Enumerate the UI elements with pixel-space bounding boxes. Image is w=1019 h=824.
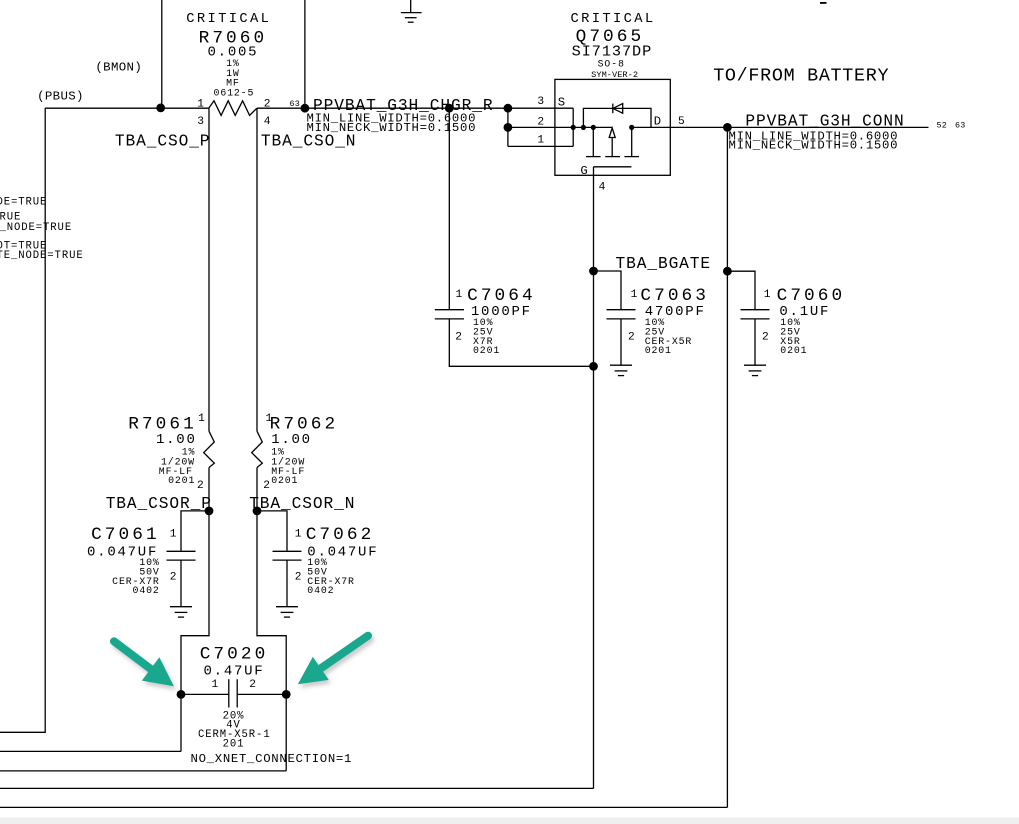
svg-text:DE=TRUE: DE=TRUE	[0, 197, 47, 209]
svg-text:52: 52	[937, 120, 947, 130]
svg-text:0402: 0402	[133, 585, 160, 596]
svg-text:2: 2	[249, 679, 256, 691]
wire bottom bus 2	[0, 770, 286, 772]
svg-text:4: 4	[599, 182, 606, 194]
node right stub	[629, 125, 634, 130]
node source bar	[571, 125, 576, 130]
wire BMON vertical	[161, 0, 163, 108]
node C7064 bottom junction	[589, 362, 598, 371]
svg-text:2: 2	[197, 480, 204, 492]
node diode left	[581, 125, 586, 130]
arrow left shadow	[116, 645, 176, 690]
svg-text:2: 2	[455, 332, 462, 344]
svg-text:_NODE=TRUE: _NODE=TRUE	[0, 222, 72, 234]
svg-text:TBA_CSOR_P: TBA_CSOR_P	[106, 495, 212, 513]
svg-text:CRITICAL: CRITICAL	[186, 12, 271, 27]
svg-text:TE_NODE=TRUE: TE_NODE=TRUE	[0, 250, 84, 262]
transistor Q7065 box	[555, 79, 670, 175]
svg-text:3: 3	[537, 96, 544, 108]
capacitor C7061 branch	[181, 511, 209, 551]
ground C7061	[170, 607, 192, 617]
svg-text:1: 1	[456, 289, 463, 301]
arrow right (teal)	[298, 636, 368, 685]
svg-text:2: 2	[263, 480, 270, 492]
svg-text:NO_XNET_CONNECTION=1: NO_XNET_CONNECTION=1	[191, 752, 353, 766]
mosfet left channel stub	[592, 127, 594, 156]
svg-text:(PBUS): (PBUS)	[37, 89, 84, 103]
wire PPVBAT_G3H_CONN vertical	[726, 127, 728, 807]
wire bottom bus 1	[0, 750, 181, 752]
svg-text:0.47UF: 0.47UF	[204, 664, 265, 680]
svg-text:63: 63	[290, 99, 300, 109]
wire pin bar at MOSFET left	[507, 108, 509, 146]
svg-text:0201: 0201	[271, 475, 298, 486]
svg-text:(BMON): (BMON)	[95, 60, 142, 74]
wire C7020 right	[237, 693, 286, 695]
capacitor C7060 branch	[727, 271, 755, 310]
svg-text:2: 2	[170, 571, 177, 583]
svg-text:D: D	[654, 114, 661, 128]
capacitor C7063 branch	[594, 271, 622, 310]
node C7020 pin2	[282, 690, 291, 699]
node TBA_CSOR_P	[205, 507, 214, 516]
wire below R7062 to C7020 jog	[257, 468, 286, 771]
mosfet channel bars	[586, 156, 601, 158]
capacitor C7064 branch	[448, 108, 450, 310]
svg-text:0201: 0201	[645, 345, 672, 356]
svg-text:TBA_CSOR_N: TBA_CSOR_N	[249, 495, 355, 513]
wire CHGR_R to MOSFET source	[257, 107, 573, 109]
arrow left (teal)	[114, 641, 174, 686]
svg-text:4: 4	[264, 116, 271, 128]
svg-text:0201: 0201	[473, 345, 500, 356]
wire bottom bus 4	[0, 806, 727, 808]
svg-text:G: G	[580, 164, 587, 178]
resistor R7062 zigzag	[252, 431, 263, 467]
wire drain to CONN	[632, 126, 929, 128]
svg-text:3: 3	[197, 116, 204, 128]
node CHGR_R junction	[301, 104, 310, 113]
svg-text:1: 1	[537, 134, 544, 146]
svg-text:2: 2	[264, 99, 271, 111]
capacitor C7020 plates	[228, 679, 230, 707]
svg-text:TO/FROM BATTERY: TO/FROM BATTERY	[713, 65, 889, 86]
svg-text:C7020: C7020	[200, 645, 269, 665]
wire main horizontal PBUS/CHGR row	[45, 107, 209, 109]
top right dash	[820, 2, 827, 4]
svg-text:C7062: C7062	[306, 525, 375, 545]
mosfet body arrow	[611, 138, 613, 157]
svg-text:SO-8: SO-8	[598, 59, 625, 70]
wire bottom bus 3	[0, 787, 594, 789]
wire gate/TBA_BGATE vertical	[593, 167, 595, 789]
gate electrode	[594, 166, 632, 168]
svg-text:1: 1	[198, 413, 205, 425]
wire vertical up from CHGR_R node	[304, 0, 306, 108]
svg-text:S: S	[558, 95, 565, 109]
wire MOSFET pin2	[508, 126, 612, 128]
svg-text:1: 1	[212, 679, 219, 691]
wire C7020 left	[181, 693, 229, 695]
wire below R7061 to C7020 jog	[181, 468, 209, 752]
svg-text:0201: 0201	[780, 345, 807, 356]
svg-text:0402: 0402	[307, 585, 334, 596]
svg-text:0612-5: 0612-5	[214, 87, 255, 98]
svg-text:2: 2	[628, 332, 635, 344]
wire pin3 vertical down to R7061	[208, 108, 210, 431]
svg-text:201: 201	[223, 739, 245, 751]
svg-text:TBA_BGATE: TBA_BGATE	[616, 255, 712, 273]
ground C7063	[610, 365, 632, 375]
svg-text:1: 1	[197, 99, 204, 111]
node C7064 top junction	[445, 104, 454, 113]
svg-text:1: 1	[170, 529, 177, 541]
svg-text:MIN_NECK_WIDTH=0.1500: MIN_NECK_WIDTH=0.1500	[307, 121, 477, 135]
node C7020 pin1	[177, 690, 186, 699]
svg-text:2: 2	[295, 571, 302, 583]
mosfet right channel stub	[631, 127, 633, 156]
ground top	[401, 0, 422, 22]
diode symbol	[612, 104, 614, 114]
svg-text:C7061: C7061	[91, 525, 160, 545]
svg-text:5: 5	[678, 116, 685, 128]
svg-text:TBA_CSO_N: TBA_CSO_N	[261, 133, 357, 151]
svg-text:CRITICAL: CRITICAL	[570, 12, 655, 27]
svg-text:SYM-VER-2: SYM-VER-2	[591, 70, 638, 80]
node BMON junction	[156, 104, 165, 113]
resistor R7060 zigzag	[209, 101, 257, 116]
svg-text:1: 1	[295, 529, 302, 541]
ground C7062	[276, 607, 298, 617]
svg-text:MIN_NECK_WIDTH=0.1500: MIN_NECK_WIDTH=0.1500	[729, 139, 899, 153]
svg-text:1: 1	[631, 289, 638, 301]
ground C7060	[744, 365, 766, 375]
svg-text:63: 63	[955, 120, 965, 130]
node left stub	[591, 125, 596, 130]
node TBA_BGATE junction	[589, 267, 598, 276]
gray bottom strip	[0, 818, 1019, 824]
svg-text:1: 1	[764, 289, 771, 301]
capacitor C7062 branch	[257, 511, 287, 551]
wire MOSFET pin1	[508, 145, 573, 147]
wire PBUS vertical and bottom-left corner	[0, 108, 45, 732]
arrow right shadow	[300, 639, 370, 688]
svg-text:TBA_CSO_P: TBA_CSO_P	[115, 133, 211, 151]
svg-text:2: 2	[537, 116, 544, 128]
node TBA_CSOR_N	[253, 507, 262, 516]
node C7060 top junction	[723, 267, 732, 276]
svg-text:0201: 0201	[168, 475, 195, 486]
svg-text:2: 2	[762, 332, 769, 344]
wire source bar	[572, 108, 574, 146]
node pin bar top	[504, 104, 513, 113]
body diode wires	[583, 108, 651, 127]
node pin bar mid	[504, 123, 513, 132]
resistor R7061 zigzag	[204, 431, 215, 467]
wire pin4 vertical down to R7062	[256, 108, 258, 431]
svg-text:PPVBAT_G3H_CONN: PPVBAT_G3H_CONN	[745, 113, 904, 131]
node drain/CONN junction	[723, 123, 732, 132]
